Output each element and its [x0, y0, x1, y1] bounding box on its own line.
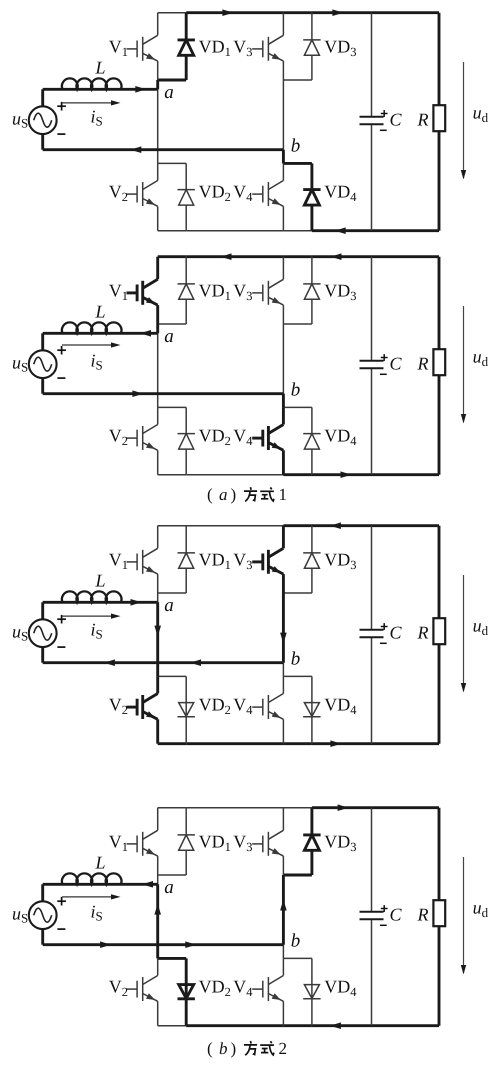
svg-text:uS: uS [12, 903, 28, 925]
svg-text:VD1: VD1 [199, 281, 231, 303]
svg-text:R: R [417, 905, 429, 925]
svg-text:ud: ud [473, 347, 489, 369]
svg-text:): ) [231, 1039, 237, 1058]
svg-text:(: ( [207, 485, 213, 504]
svg-text:a: a [164, 877, 174, 898]
svg-text:C: C [390, 354, 403, 374]
svg-text:VD3: VD3 [324, 550, 356, 572]
svg-text:V1: V1 [109, 550, 128, 572]
svg-text:VD3: VD3 [324, 37, 356, 59]
svg-text:VD2: VD2 [199, 182, 231, 204]
svg-text:(: ( [207, 1039, 213, 1058]
svg-text:L: L [95, 571, 106, 591]
svg-text:L: L [95, 58, 106, 78]
svg-text:VD4: VD4 [324, 426, 357, 448]
svg-text:b: b [291, 380, 301, 401]
svg-text:iS: iS [91, 350, 103, 372]
svg-text:VD4: VD4 [324, 182, 357, 204]
svg-text:b: b [291, 136, 301, 157]
svg-text:uS: uS [12, 352, 28, 374]
svg-text:VD1: VD1 [199, 37, 231, 59]
svg-text:): ) [231, 485, 237, 504]
svg-text:R: R [417, 110, 429, 130]
svg-text:ud: ud [473, 103, 489, 125]
svg-text:C: C [390, 623, 403, 643]
svg-text:C: C [390, 905, 403, 925]
svg-text:VD2: VD2 [199, 695, 231, 717]
svg-text:uS: uS [12, 621, 28, 643]
svg-text:VD2: VD2 [199, 426, 231, 448]
svg-text:V3: V3 [233, 281, 252, 303]
svg-text:iS: iS [91, 106, 103, 128]
svg-text:V3: V3 [233, 832, 252, 854]
svg-text:V3: V3 [233, 37, 252, 59]
svg-text:C: C [390, 110, 403, 130]
svg-text:ud: ud [473, 616, 489, 638]
svg-text:a: a [164, 326, 174, 347]
svg-text:V2: V2 [109, 182, 128, 204]
svg-text:VD1: VD1 [199, 832, 231, 854]
svg-text:V2: V2 [109, 695, 128, 717]
svg-text:a: a [219, 485, 228, 504]
svg-text:VD3: VD3 [324, 832, 356, 854]
svg-text:iS: iS [91, 619, 103, 641]
svg-text:b: b [219, 1039, 228, 1058]
svg-text:b: b [291, 931, 301, 952]
svg-text:2: 2 [279, 1039, 288, 1058]
svg-text:V1: V1 [109, 281, 128, 303]
svg-text:iS: iS [91, 901, 103, 923]
svg-text:VD4: VD4 [324, 977, 357, 999]
svg-text:VD1: VD1 [199, 550, 231, 572]
svg-text:VD4: VD4 [324, 695, 357, 717]
svg-text:V4: V4 [233, 977, 253, 999]
svg-text:VD3: VD3 [324, 281, 356, 303]
svg-text:V4: V4 [233, 695, 253, 717]
svg-text:a: a [164, 595, 174, 616]
svg-text:V4: V4 [233, 426, 253, 448]
svg-text:1: 1 [279, 485, 288, 504]
svg-text:a: a [164, 82, 174, 103]
svg-text:V4: V4 [233, 182, 253, 204]
svg-text:R: R [417, 354, 429, 374]
svg-text:b: b [291, 649, 301, 670]
svg-text:V1: V1 [109, 37, 128, 59]
svg-text:L: L [95, 302, 106, 322]
svg-text:V3: V3 [233, 550, 252, 572]
svg-text:V1: V1 [109, 832, 128, 854]
svg-text:L: L [95, 853, 106, 873]
svg-text:VD2: VD2 [199, 977, 231, 999]
svg-text:V2: V2 [109, 977, 128, 999]
svg-text:R: R [417, 623, 429, 643]
svg-text:uS: uS [12, 108, 28, 130]
svg-text:ud: ud [473, 898, 489, 920]
svg-text:V2: V2 [109, 426, 128, 448]
